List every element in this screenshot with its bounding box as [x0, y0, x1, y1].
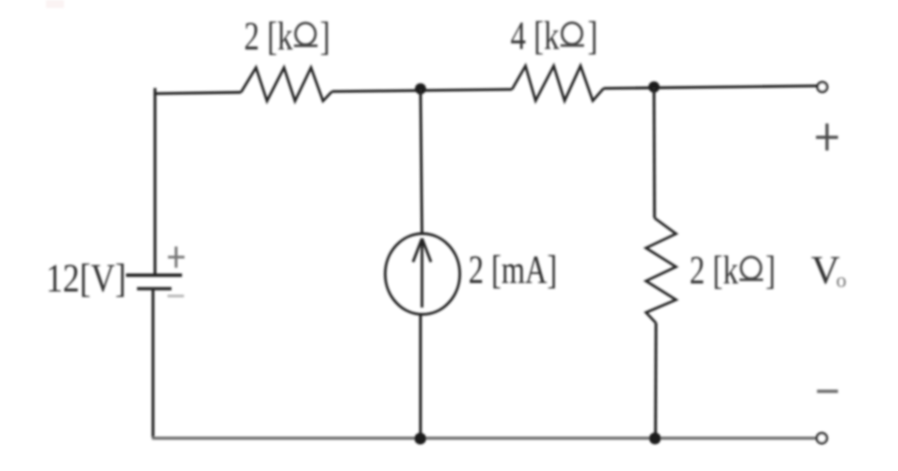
wire: top rail segment B [332, 89, 512, 91]
svg-text:]: ] [588, 13, 598, 58]
battery V1: bottom plate (-, short) [137, 287, 172, 290]
battery - polarity mark [168, 295, 185, 298]
label 4[kΩ] for R2 [511, 13, 598, 58]
svg-text:2 [k: 2 [k [690, 248, 739, 293]
wire: middle branch lower [419, 314, 422, 438]
node C junction dot (bottom middle) [414, 433, 426, 445]
svg-text:]: ] [765, 248, 775, 293]
resistor R1 2kΩ zigzag [241, 68, 332, 101]
svg-text:4 [k: 4 [k [511, 13, 560, 58]
wire: left vertical (top, battery to top rail) [154, 88, 157, 274]
wire: left vertical (battery to bottom rail) [152, 290, 155, 439]
battery V1 12V: top plate (+, long) [126, 274, 182, 277]
resistor R2 4kΩ zigzag [512, 66, 604, 101]
wire: top rail segment A [154, 92, 241, 93]
svg-text:2 [mA]: 2 [mA] [469, 247, 558, 292]
wire: middle branch upper [421, 89, 423, 235]
wire: bottom rail [152, 437, 817, 440]
current source I1 arrow (upward) [421, 241, 424, 308]
terminal: bottom right open circle [817, 433, 827, 443]
wire: top rail segment C [604, 86, 817, 89]
node B junction dot (top right) [648, 81, 659, 92]
terminal: top right open circle [818, 82, 828, 92]
output - sign [817, 390, 838, 393]
node A junction dot (top middle) [415, 83, 426, 94]
wire: right branch lower [654, 323, 657, 438]
battery + polarity mark [168, 247, 185, 268]
output + sign [816, 124, 838, 151]
svg-text:]: ] [320, 14, 330, 59]
svg-text:2 [k: 2 [k [244, 14, 293, 59]
svg-text:12[V]: 12[V] [46, 256, 126, 300]
svg-text:o: o [836, 268, 847, 292]
faint scan smudge top-left [46, 0, 64, 8]
resistor R3 2kΩ vertical zigzag [646, 218, 676, 323]
label 2[kΩ] for R3 [690, 248, 776, 293]
node D junction dot (bottom right) [649, 433, 661, 445]
label 2[kΩ] for R1 [244, 14, 330, 59]
current source I1 circle [385, 234, 460, 315]
wire: right branch upper [653, 87, 656, 218]
